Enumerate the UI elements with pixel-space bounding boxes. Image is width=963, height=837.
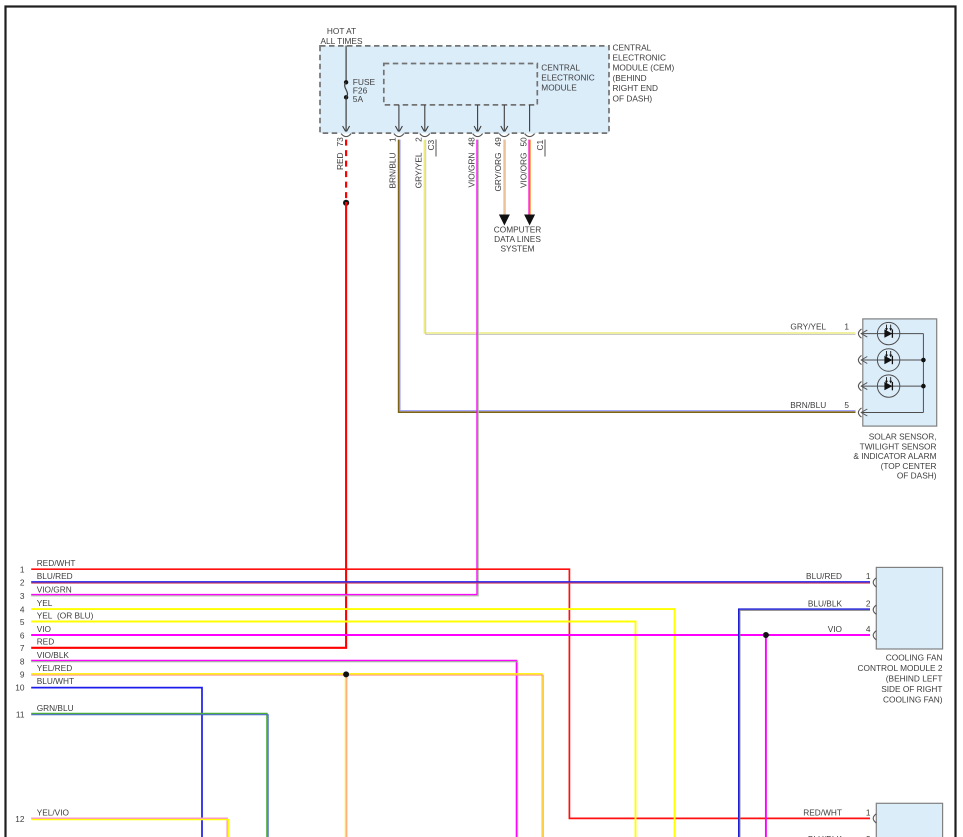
svg-text:GRY/YEL: GRY/YEL — [790, 321, 826, 331]
junction dot bus row 2 — [921, 358, 926, 363]
wire RED/WHT pin 1 row — [31, 569, 870, 818]
svg-text:2: 2 — [866, 599, 871, 609]
wire BLU/BLK from bottom to cooling fan module pin 2 — [739, 609, 870, 837]
svg-text:RIGHT END: RIGHT END — [613, 83, 658, 93]
svg-text:VIO/GRN: VIO/GRN — [466, 153, 476, 188]
svg-text:4: 4 — [20, 604, 25, 614]
wire GRY/YEL to solar sensor pin 1 — [424, 140, 855, 335]
svg-text:VIO: VIO — [828, 624, 843, 634]
svg-text:TWILIGHT SENSOR: TWILIGHT SENSOR — [860, 441, 937, 451]
svg-text:ELECTRONIC: ELECTRONIC — [613, 53, 666, 63]
wire YEL/VIO pin 12 row — [31, 818, 228, 837]
svg-text:2: 2 — [20, 578, 25, 588]
svg-text:MODULE (CEM): MODULE (CEM) — [613, 63, 675, 73]
svg-text:COOLING FAN): COOLING FAN) — [883, 695, 943, 705]
svg-text:SIDE OF RIGHT: SIDE OF RIGHT — [881, 684, 942, 694]
wire CEM drop pin 49 — [503, 105, 505, 132]
svg-text:73: 73 — [335, 137, 345, 147]
svg-text:5A: 5A — [353, 94, 364, 104]
svg-text:SYSTEM: SYSTEM — [500, 243, 534, 253]
svg-text:GRY/ORG: GRY/ORG — [493, 152, 503, 191]
solar sensor internal row 2 wire — [862, 359, 924, 361]
connector bump pin 2 — [419, 132, 430, 137]
connector bump pin 49 — [499, 132, 510, 137]
node: cooling fan control module box (bottom, clipped) — [876, 803, 942, 837]
svg-text:BRN/BLU: BRN/BLU — [790, 400, 826, 410]
svg-text:YEL: YEL — [37, 598, 53, 608]
svg-text:(TOP CENTER: (TOP CENTER — [881, 461, 937, 471]
svg-text:5: 5 — [844, 400, 849, 410]
connector cooling fan pin 2 — [873, 605, 876, 614]
photodiode D3 — [877, 375, 899, 397]
svg-text:YEL/VIO: YEL/VIO — [37, 807, 70, 817]
svg-text:& INDICATOR ALARM: & INDICATOR ALARM — [853, 451, 936, 461]
svg-text:YEL/RED: YEL/RED — [37, 663, 73, 673]
svg-text:SOLAR SENSOR,: SOLAR SENSOR, — [869, 432, 937, 442]
label HOT AT ALL TIMES — [321, 26, 363, 46]
splice junction on RED wire — [343, 200, 349, 206]
svg-text:12: 12 — [15, 814, 25, 824]
solar sensor internal bus wire — [922, 334, 924, 413]
svg-text:(BEHIND: (BEHIND — [613, 73, 647, 83]
wire GRN/BLU pin 11 row — [31, 713, 268, 837]
svg-text:BRN/BLU: BRN/BLU — [388, 152, 398, 188]
svg-text:OF DASH): OF DASH) — [613, 93, 653, 103]
arrowhead pin 73 — [343, 126, 350, 132]
wire fuse to CEM pin 73 connector — [345, 97, 347, 131]
svg-text:COMPUTER: COMPUTER — [494, 224, 541, 234]
svg-text:GRN/BLU: GRN/BLU — [37, 703, 74, 713]
svg-text:YEL (OR BLU): YEL (OR BLU) — [37, 610, 94, 620]
svg-text:HOT AT: HOT AT — [327, 26, 356, 36]
solar sensor internal row 4 wire — [862, 412, 924, 414]
wire GRY/ORG to computer data lines — [504, 140, 505, 215]
junction dot bus row 3 — [921, 384, 926, 389]
junction dot YEL/RED — [343, 671, 349, 677]
arrowhead pin 48 — [474, 126, 481, 132]
svg-text:RED: RED — [335, 153, 345, 171]
svg-text:GRY/YEL: GRY/YEL — [414, 152, 424, 188]
arrowhead pin 1 — [395, 126, 402, 132]
arrowhead GRY/ORG — [499, 215, 510, 226]
wire VIO/BLK pin 8 row — [31, 660, 517, 837]
svg-text:10: 10 — [15, 682, 25, 692]
svg-text:6: 6 — [20, 631, 25, 641]
svg-text:MODULE: MODULE — [541, 82, 577, 92]
svg-text:48: 48 — [466, 137, 476, 147]
fuse F26 5A — [344, 80, 348, 99]
svg-text:8: 8 — [20, 656, 25, 666]
svg-text:BLU/WHT: BLU/WHT — [37, 676, 74, 686]
wire VIO pin 6 row — [31, 634, 870, 636]
svg-text:C1: C1 — [535, 140, 545, 151]
svg-text:BLU/RED: BLU/RED — [37, 571, 73, 581]
svg-text:ELECTRONIC: ELECTRONIC — [541, 72, 594, 82]
wire CEM drop pin 1 — [398, 105, 400, 132]
svg-text:VIO/BLK: VIO/BLK — [37, 650, 70, 660]
wire VIO/ORG to computer data lines — [528, 140, 530, 215]
wire CEM drop pin 50 — [529, 105, 531, 132]
label SOLAR SENSOR block — [853, 432, 936, 481]
wire YEL (OR BLU) pin 5 row — [31, 622, 635, 837]
connector label C1 — [535, 140, 545, 157]
arrowhead pin 49 — [501, 126, 508, 132]
svg-text:1: 1 — [844, 321, 849, 331]
connector bump pin 50 — [524, 132, 535, 137]
svg-text:RED: RED — [37, 637, 55, 647]
wire YEL/RED branch down — [346, 674, 347, 837]
svg-text:1: 1 — [20, 565, 25, 575]
photodiode D1 — [877, 322, 899, 344]
wire RED solid to pin 7 row — [31, 202, 346, 648]
svg-text:4: 4 — [866, 624, 871, 634]
photodiode D2 — [877, 349, 899, 371]
connector bump pin 48 — [472, 132, 483, 137]
junction dot VIO — [763, 632, 769, 638]
svg-text:COOLING FAN: COOLING FAN — [886, 652, 943, 662]
svg-text:1: 1 — [866, 808, 871, 818]
connector solar pin 1 — [858, 329, 867, 338]
svg-text:CONTROL MODULE 2: CONTROL MODULE 2 — [858, 663, 943, 673]
svg-text:OF DASH): OF DASH) — [897, 471, 937, 481]
svg-text:ALL TIMES: ALL TIMES — [321, 36, 363, 46]
svg-text:7: 7 — [20, 643, 25, 653]
svg-text:BLU/BLK: BLU/BLK — [808, 599, 843, 609]
connector cooling fan pin 4 — [873, 631, 876, 640]
svg-text:CENTRAL: CENTRAL — [541, 63, 580, 73]
wire VIO branch down — [765, 635, 767, 837]
svg-text:(BEHIND LEFT: (BEHIND LEFT — [886, 674, 943, 684]
svg-text:RED/WHT: RED/WHT — [803, 808, 842, 818]
solar sensor internal row 3 wire — [862, 385, 924, 387]
svg-text:1: 1 — [388, 137, 398, 142]
connector solar pin 5 — [858, 408, 867, 417]
label CENTRAL ELECTRONIC MODULE (CEM) (BEHIND RIGHT END OF DASH) — [613, 42, 675, 103]
connector bump pin 73 — [341, 132, 352, 137]
svg-text:DATA LINES: DATA LINES — [494, 234, 541, 244]
node: cooling fan control module 2 box — [876, 567, 942, 649]
svg-text:BLU/RED: BLU/RED — [806, 571, 842, 581]
wire BLU/WHT pin 10 row — [31, 688, 202, 837]
connector bump pin 1 — [393, 132, 404, 137]
arrowhead VIO/ORG — [524, 215, 535, 226]
module CEM outer dashed box — [320, 46, 609, 133]
svg-text:5: 5 — [20, 617, 25, 627]
svg-text:VIO/ORG: VIO/ORG — [518, 153, 528, 189]
wire CEM drop pin 48 — [477, 105, 479, 132]
label COMPUTER DATA LINES SYSTEM — [494, 224, 542, 253]
svg-text:49: 49 — [493, 137, 503, 147]
svg-text:3: 3 — [20, 591, 25, 601]
solar sensor internal row 1 wire — [862, 333, 924, 335]
wire RED dashed (fuse feed) — [345, 140, 347, 202]
wire YEL pin 4 row — [31, 609, 674, 837]
wire CEM drop pin 2 — [424, 105, 426, 132]
node: solar sensor box — [863, 319, 937, 426]
module CEM inner dashed box — [384, 64, 538, 105]
svg-text:50: 50 — [518, 137, 528, 147]
connector label C3 — [426, 140, 436, 157]
svg-text:2: 2 — [414, 137, 424, 142]
arrowhead pin 2 — [421, 126, 428, 132]
svg-text:1: 1 — [866, 571, 871, 581]
svg-text:11: 11 — [16, 709, 25, 719]
connector solar row 2 — [858, 355, 867, 364]
wire VIO/GRN from pin 48 to left pin 3 — [31, 140, 478, 596]
label CENTRAL ELECTRONIC MODULE (inner box) — [541, 63, 594, 93]
connector bottom module pin 1 — [873, 814, 876, 823]
svg-text:VIO: VIO — [37, 624, 52, 634]
wire BRN/BLU to solar sensor pin 5 — [399, 140, 856, 413]
svg-text:C3: C3 — [426, 140, 436, 151]
svg-text:CENTRAL: CENTRAL — [613, 42, 652, 52]
label FUSE F26 5A — [353, 77, 376, 104]
svg-text:9: 9 — [20, 670, 25, 680]
wire BLU/RED pin 2 row — [31, 582, 870, 583]
svg-text:VIO/GRN: VIO/GRN — [37, 584, 72, 594]
svg-text:RED/WHT: RED/WHT — [37, 558, 76, 568]
wire from HOT AT ALL TIMES to fuse — [345, 46, 347, 83]
label COOLING FAN CONTROL MODULE 2 block — [858, 652, 943, 704]
wire YEL/RED pin 9 row — [31, 674, 543, 837]
connector cooling fan pin 1 — [873, 578, 876, 587]
connector solar row 3 — [858, 382, 867, 391]
